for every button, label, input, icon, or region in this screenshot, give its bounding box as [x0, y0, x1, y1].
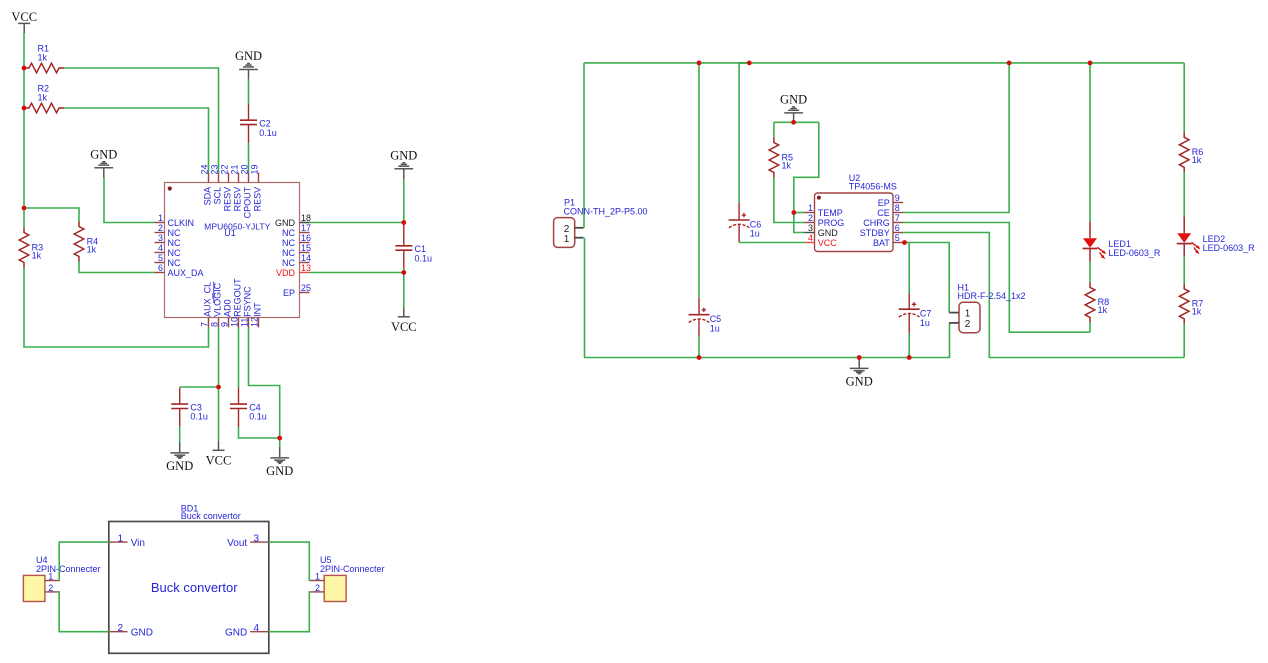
svg-text:CPOUT: CPOUT — [243, 186, 253, 218]
U1 pin 7 AUX_CL — [208, 318, 210, 328]
svg-text:2: 2 — [158, 223, 163, 233]
U4 pin 1 — [45, 580, 59, 582]
svg-text:2: 2 — [808, 213, 813, 223]
svg-text:GND: GND — [90, 147, 117, 161]
wire R7 bottom — [1183, 324, 1185, 358]
svg-text:CE: CE — [877, 208, 890, 218]
power VCC (below pin8) — [218, 441, 220, 450]
node R2 tap — [22, 106, 27, 111]
H1 pin 2 — [949, 322, 959, 324]
svg-text:VCC: VCC — [11, 10, 37, 24]
U2 pin 5 BAT — [893, 242, 903, 244]
U1 pin 14 NC — [300, 262, 310, 264]
wire rail to LED1 — [1089, 63, 1091, 222]
wire C7 to rail — [908, 333, 910, 357]
svg-text:RESV: RESV — [223, 187, 233, 212]
U1 pin 23 SCL — [218, 173, 220, 183]
U1 pin 16 NC — [300, 242, 310, 244]
wire gnd to CLKIN — [104, 178, 155, 223]
wire top rail — [584, 62, 1184, 64]
svg-text:1u: 1u — [750, 229, 760, 239]
svg-text:0.1u: 0.1u — [415, 253, 433, 263]
svg-text:7: 7 — [895, 213, 900, 223]
svg-text:FSYNC: FSYNC — [243, 286, 253, 317]
wire to C3 — [180, 386, 219, 388]
svg-text:1u: 1u — [710, 323, 720, 333]
svg-text:VDD: VDD — [276, 268, 296, 278]
svg-text:20: 20 — [239, 164, 249, 174]
wire C3 to gnd — [179, 427, 181, 442]
svg-text:16: 16 — [301, 233, 311, 243]
U2 pin 4 VCC — [805, 242, 815, 244]
svg-text:NC: NC — [168, 248, 181, 258]
resistor R3 — [19, 228, 29, 268]
wire rail to C6 — [738, 63, 740, 203]
svg-text:1k: 1k — [32, 250, 42, 260]
polarized capacitor C6 — [738, 203, 740, 220]
BD1 pin 3 Vout — [250, 541, 269, 543]
svg-text:EP: EP — [283, 288, 295, 298]
U1 VLOGIC overline — [213, 282, 215, 304]
node LED1 rail — [1088, 61, 1093, 66]
U1 pin 21 RESV — [238, 173, 240, 183]
wire C6 to VCC pin — [739, 242, 804, 244]
svg-text:LED-0603_R: LED-0603_R — [1203, 243, 1256, 253]
svg-text:3: 3 — [808, 223, 813, 233]
U1 pin 20 CPOUT — [248, 173, 250, 183]
svg-text:SCL: SCL — [213, 187, 223, 205]
resistor R1 — [24, 63, 64, 73]
svg-text:CHRG: CHRG — [863, 218, 890, 228]
svg-text:1k: 1k — [87, 244, 97, 254]
LED LED1 — [1089, 222, 1091, 239]
svg-text:GND: GND — [225, 628, 247, 639]
svg-text:TP4056-MS: TP4056-MS — [849, 182, 897, 192]
resistor R4 — [74, 222, 84, 262]
IC U2 TP4056-MS body — [815, 193, 894, 252]
wire R8 bottom — [1089, 322, 1091, 332]
svg-text:4: 4 — [808, 233, 813, 243]
svg-text:12: 12 — [249, 317, 259, 327]
wire gnd node horiz — [774, 121, 819, 123]
svg-text:0.1u: 0.1u — [249, 412, 267, 422]
U1 pin 9 AD0 — [228, 318, 230, 328]
wire to GND pin — [794, 213, 805, 233]
svg-text:VCC: VCC — [206, 454, 232, 468]
IC U1 MPU6050-YJLTY body — [165, 183, 300, 318]
connector H1 body — [959, 302, 980, 332]
svg-text:INT: INT — [253, 302, 263, 317]
svg-text:U1: U1 — [224, 228, 236, 238]
wire to gnd — [279, 438, 281, 447]
svg-text:BAT: BAT — [873, 238, 890, 248]
U2 pin-1 mark — [817, 196, 821, 200]
U2 pin 6 STDBY — [893, 232, 903, 234]
svg-text:6: 6 — [895, 223, 900, 233]
svg-text:1k: 1k — [38, 53, 48, 63]
wire — [403, 269, 405, 273]
svg-text:NC: NC — [168, 258, 181, 268]
resistor R5 — [769, 138, 779, 178]
svg-text:1u: 1u — [920, 318, 930, 328]
node C4/FSYNC — [277, 436, 282, 441]
svg-text:7: 7 — [199, 322, 209, 327]
ground (bottom rail) — [858, 358, 860, 368]
wire to VCC — [403, 273, 405, 308]
svg-text:AUX_DA: AUX_DA — [168, 268, 204, 278]
wire bottom GND rail — [584, 323, 950, 358]
svg-text:EP: EP — [878, 198, 890, 208]
svg-text:6: 6 — [158, 263, 163, 273]
wire to R5 — [773, 122, 775, 137]
svg-text:1k: 1k — [1192, 307, 1202, 317]
svg-text:1k: 1k — [1192, 155, 1202, 165]
svg-text:1: 1 — [808, 203, 813, 213]
LED LED2 — [1183, 217, 1185, 234]
svg-text:2PIN-Connecter: 2PIN-Connecter — [320, 564, 385, 574]
svg-text:24: 24 — [199, 164, 209, 174]
svg-text:2PIN-Connecter: 2PIN-Connecter — [36, 564, 101, 574]
wire CHRG to R8 — [903, 223, 1090, 333]
P1 pin 2 — [575, 227, 584, 229]
svg-text:4: 4 — [254, 623, 260, 634]
svg-text:SDA: SDA — [203, 187, 213, 206]
wire overlap segment — [739, 62, 749, 64]
wire R2 to SDA — [64, 108, 209, 173]
U2 pin 1 TEMP — [805, 212, 815, 214]
wire BAT to C7 — [908, 243, 910, 294]
BD1 pin 1 Vin — [109, 541, 128, 543]
svg-text:2: 2 — [965, 319, 971, 330]
svg-text:NC: NC — [282, 248, 295, 258]
svg-text:RESV: RESV — [233, 187, 243, 212]
node C5 top — [697, 61, 702, 66]
node R1 tap — [22, 66, 27, 71]
node CE rail — [1007, 61, 1012, 66]
svg-text:8: 8 — [209, 322, 219, 327]
node C6 top — [747, 61, 752, 66]
wire pin18 GND — [300, 222, 404, 224]
BD1 pin 4 GND — [250, 631, 269, 633]
svg-text:GND: GND — [131, 628, 153, 639]
svg-text:GND: GND — [780, 93, 807, 107]
U1 pin 25 EP — [300, 292, 310, 294]
svg-text:NC: NC — [168, 238, 181, 248]
capacitor C1 — [403, 223, 405, 246]
U1 pin 22 RESV — [228, 173, 230, 183]
node BAT — [902, 240, 907, 245]
svg-text:GND: GND — [275, 218, 296, 228]
connector P1 body — [554, 218, 575, 248]
module BD1 Buck convertor body — [109, 522, 269, 654]
svg-text:1: 1 — [158, 213, 163, 223]
svg-text:NC: NC — [282, 228, 295, 238]
U1 pin 17 NC — [300, 232, 310, 234]
svg-text:RESV: RESV — [253, 187, 263, 212]
svg-text:11: 11 — [239, 318, 249, 327]
svg-text:VCC: VCC — [391, 320, 417, 334]
wire gnd loop to TEMP — [794, 122, 819, 212]
svg-text:5: 5 — [158, 253, 163, 263]
svg-text:AUX_CL: AUX_CL — [203, 282, 213, 317]
wire VLOGIC to VCC — [218, 328, 220, 442]
wire LED1 to R8 — [1089, 262, 1091, 283]
U1 pin 4 NC — [155, 252, 165, 254]
U4 pin 2 — [45, 591, 59, 593]
wire U4.2 to GND — [58, 592, 108, 632]
U2 pin 7 CHRG — [893, 222, 903, 224]
svg-text:Buck convertor: Buck convertor — [151, 580, 238, 595]
wire LED2 to R7 — [1183, 257, 1185, 284]
wire C4 bottom — [239, 427, 280, 438]
svg-text:AD0: AD0 — [223, 299, 233, 317]
svg-text:8: 8 — [895, 203, 900, 213]
svg-text:GND: GND — [266, 464, 293, 478]
power VCC (below C1) — [403, 308, 405, 317]
svg-text:2: 2 — [118, 623, 124, 634]
svg-text:GND: GND — [390, 149, 417, 163]
resistor R8 — [1085, 282, 1095, 322]
U1 pin 19 RESV — [258, 173, 260, 183]
U1 pin 18 GND — [300, 222, 310, 224]
svg-text:10: 10 — [229, 317, 239, 327]
U1 pin 6 AUX_DA — [155, 272, 165, 274]
wire R3 bottom to pin7 — [24, 268, 209, 348]
svg-text:22: 22 — [219, 164, 229, 174]
svg-text:VCC: VCC — [818, 238, 838, 248]
svg-text:CLKIN: CLKIN — [168, 218, 195, 228]
ground (below C3) — [179, 442, 181, 452]
svg-text:23: 23 — [209, 164, 219, 174]
svg-text:1k: 1k — [38, 93, 48, 103]
node GND rail — [857, 355, 862, 360]
U1 pin-1 mark — [168, 186, 172, 190]
resistor R7 — [1179, 284, 1189, 324]
svg-text:14: 14 — [301, 253, 311, 263]
svg-text:13: 13 — [301, 263, 311, 273]
wire R6 to LED2 — [1183, 172, 1185, 216]
svg-text:3: 3 — [158, 233, 163, 243]
wire P1 pin1 down — [584, 238, 586, 358]
svg-text:HDR-F-2.54_1x2: HDR-F-2.54_1x2 — [958, 291, 1026, 301]
U1 pin 13 VDD — [300, 272, 310, 274]
svg-text:25: 25 — [301, 283, 311, 293]
svg-text:CONN-TH_2P-P5.00: CONN-TH_2P-P5.00 — [564, 206, 648, 216]
ground (below C4) — [279, 447, 281, 457]
connector U5 body — [324, 575, 346, 601]
U2 pin 2 PROG — [805, 222, 815, 224]
svg-text:GND: GND — [846, 374, 873, 388]
polarized capacitor C5 — [698, 298, 700, 315]
svg-text:1k: 1k — [782, 160, 792, 170]
svg-text:NC: NC — [282, 258, 295, 268]
U1 pin 24 SDA — [208, 173, 210, 183]
capacitor C4 — [238, 388, 240, 405]
wire STDBY to R7 — [903, 233, 1184, 358]
wire rail to C5 — [698, 63, 700, 298]
wire C5 to rail — [698, 336, 700, 357]
svg-text:STDBY: STDBY — [860, 228, 890, 238]
svg-text:PROG: PROG — [818, 218, 845, 228]
svg-text:REGOUT: REGOUT — [233, 278, 243, 317]
U1 pin 12 INT — [258, 318, 260, 328]
svg-text:1k: 1k — [1098, 305, 1108, 315]
P1 pin 1 — [575, 237, 584, 239]
wire BAT to H1 — [903, 243, 949, 313]
node C7 bottom — [907, 355, 912, 360]
svg-text:17: 17 — [301, 223, 311, 233]
U1 pin 2 NC — [155, 232, 165, 234]
wire U5.1 to Vout — [269, 542, 310, 580]
wire CE to rail — [903, 63, 1009, 213]
svg-text:MPU6050-YJLTY: MPU6050-YJLTY — [204, 221, 270, 231]
U1 pin 10 REGOUT — [238, 318, 240, 328]
svg-text:3: 3 — [254, 533, 260, 544]
wire U5.2 to GND — [269, 592, 310, 632]
svg-text:0.1u: 0.1u — [190, 412, 208, 422]
svg-text:GND: GND — [818, 228, 839, 238]
node R3/R4 tap — [22, 206, 27, 211]
svg-text:Buck convertor: Buck convertor — [181, 511, 241, 521]
H1 pin 1 — [949, 312, 959, 314]
wire VCC column — [23, 33, 25, 228]
svg-text:9: 9 — [219, 322, 229, 327]
wire rail to R6 — [1183, 63, 1185, 132]
svg-text:1: 1 — [564, 234, 570, 245]
svg-text:4: 4 — [158, 243, 163, 253]
wire R1 to SCL — [64, 68, 219, 173]
svg-text:NC: NC — [282, 238, 295, 248]
U1 pin 15 NC — [300, 252, 310, 254]
node C1 bottom — [401, 270, 406, 275]
U2 pin 9 EP — [893, 202, 903, 204]
U1 pin 5 NC — [155, 262, 165, 264]
wire R5 to PROG — [774, 178, 805, 223]
svg-text:2: 2 — [315, 583, 320, 593]
U1 pin 3 NC — [155, 242, 165, 244]
U5 pin 2 — [310, 591, 324, 593]
wire gnd to node — [403, 179, 405, 223]
U1 pin 11 FSYNC — [248, 318, 250, 328]
U2 pin 3 GND — [805, 232, 815, 234]
polarized capacitor C7 — [908, 293, 910, 309]
svg-text:5: 5 — [895, 233, 900, 243]
svg-text:21: 21 — [229, 164, 239, 174]
wire C2 to CPOUT — [248, 143, 250, 173]
connector U4 body — [23, 575, 45, 601]
wire U4.1 to Vin — [58, 542, 108, 580]
wire gnd to C2 — [248, 80, 250, 104]
capacitor C2 — [248, 104, 250, 120]
node R5/GND — [791, 120, 796, 125]
svg-text:Vout: Vout — [227, 538, 247, 549]
svg-text:0.1u: 0.1u — [259, 128, 277, 138]
U2 pin 8 CE — [893, 212, 903, 214]
wire rail to P1 pin2 — [583, 63, 585, 228]
U1 pin 8 VLOGIC — [218, 318, 220, 328]
resistor R2 — [24, 103, 64, 113]
svg-text:TEMP: TEMP — [818, 208, 843, 218]
svg-text:NC: NC — [168, 228, 181, 238]
node TEMP — [791, 210, 796, 215]
svg-text:9: 9 — [895, 193, 900, 203]
wire pin13 VDD — [310, 272, 404, 274]
wire to TEMP pin — [794, 212, 805, 214]
svg-text:GND: GND — [166, 459, 193, 473]
wire R4 to AUX_DA — [79, 262, 155, 273]
svg-text:19: 19 — [249, 164, 259, 174]
capacitor C3 — [179, 388, 181, 405]
svg-text:GND: GND — [235, 49, 262, 63]
svg-text:18: 18 — [301, 213, 311, 223]
wire FSYNC down — [249, 328, 280, 439]
resistor R6 — [1179, 132, 1189, 172]
svg-text:1: 1 — [118, 533, 124, 544]
svg-text:Vin: Vin — [131, 538, 145, 549]
node C3 tap — [216, 385, 221, 390]
wire to R4 — [24, 208, 79, 222]
svg-text:2: 2 — [48, 583, 53, 593]
wire REGOUT to C4 — [238, 328, 240, 388]
U5 pin 1 — [310, 580, 324, 582]
BD1 pin 2 GND — [109, 631, 128, 633]
svg-text:15: 15 — [301, 243, 311, 253]
svg-text:LED-0603_R: LED-0603_R — [1108, 248, 1161, 258]
node C5 bottom — [697, 355, 702, 360]
U1 pin 1 CLKIN — [155, 222, 165, 224]
node C1 top — [401, 220, 406, 225]
